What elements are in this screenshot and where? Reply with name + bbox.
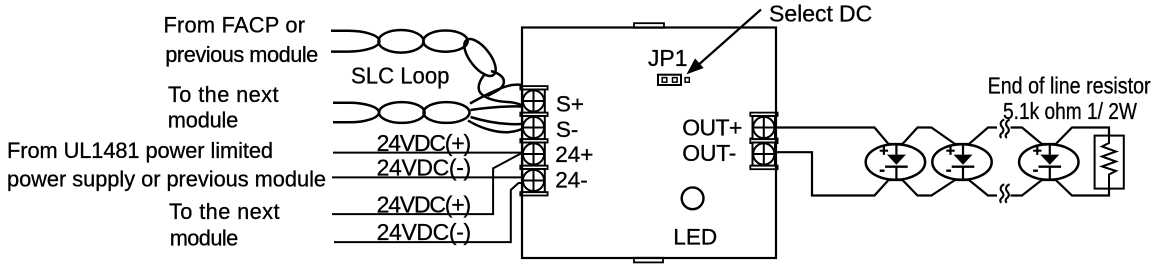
svg-text:S+: S+ <box>556 92 584 117</box>
svg-text:From FACP or: From FACP or <box>164 13 306 38</box>
svg-text:From UL1481 power limited: From UL1481 power limited <box>7 138 273 163</box>
svg-text:24VDC(-): 24VDC(-) <box>377 219 472 245</box>
svg-text:24VDC(-): 24VDC(-) <box>377 155 472 181</box>
svg-text:To the next: To the next <box>169 199 280 224</box>
svg-text:power supply or previous modul: power supply or previous module <box>7 166 326 191</box>
svg-text:OUT+: OUT+ <box>682 115 742 141</box>
svg-text:module: module <box>170 225 239 250</box>
svg-text:JP1: JP1 <box>648 45 688 71</box>
svg-text:24VDC(+): 24VDC(+) <box>377 130 472 156</box>
svg-text:DC: DC <box>839 1 872 27</box>
svg-text:To the next: To the next <box>168 82 279 107</box>
svg-text:OUT-: OUT- <box>682 140 736 166</box>
svg-text:5.1k ohm 1/ 2W: 5.1k ohm 1/ 2W <box>1003 98 1137 124</box>
svg-text:S-: S- <box>556 117 579 142</box>
svg-text:SLC Loop: SLC Loop <box>351 63 450 89</box>
svg-text:previous module: previous module <box>165 42 318 67</box>
svg-text:LED: LED <box>673 225 717 250</box>
svg-text:24VDC(+): 24VDC(+) <box>377 191 472 217</box>
svg-text:24-: 24- <box>555 167 588 192</box>
svg-text:Select: Select <box>769 1 834 27</box>
svg-text:24+: 24+ <box>555 142 593 167</box>
svg-text:module: module <box>168 107 239 132</box>
svg-text:End of line resistor: End of line resistor <box>988 72 1151 98</box>
